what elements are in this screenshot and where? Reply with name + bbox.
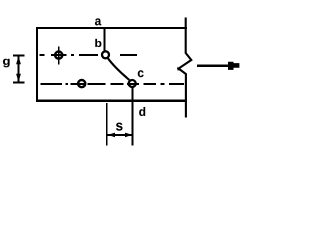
force arrowhead [228, 62, 239, 70]
plate bottom edge [36, 100, 187, 102]
path line b-c (diagonal) [107, 58, 129, 80]
dimension g vertical line [18, 56, 20, 83]
dimension line s [108, 134, 133, 136]
centerline row 2 (dash-dot through mid hole and c) [41, 83, 185, 85]
dimension g bottom bar [13, 82, 25, 84]
plate top edge [36, 27, 187, 29]
arrowhead s left [108, 133, 115, 138]
label g [3, 59, 10, 68]
dimension g top bar [13, 55, 25, 57]
label a [95, 18, 101, 25]
path line a (top edge down to hole b) [104, 28, 106, 51]
label c [138, 70, 144, 77]
break line (right edge zigzag) [179, 18, 192, 118]
force arrow shaft [197, 64, 230, 66]
arrowhead g up [16, 56, 21, 64]
plate left edge [36, 27, 38, 102]
arrowhead s right [125, 133, 132, 138]
centerline row 1 (dash-dot through holes 1 and b) [40, 54, 138, 56]
hole 1 crosshair horizontal [51, 54, 67, 56]
hole 1 crosshair vertical [58, 47, 60, 65]
extension line below b for s [106, 103, 108, 146]
break line vertex thickening [177, 67, 181, 71]
mid hole [78, 80, 85, 87]
hole 1 (circle with center mark) [55, 52, 62, 59]
label s [116, 123, 122, 131]
path line c-d / extension for s (hole c down through bottom edge) [131, 88, 133, 146]
label b [95, 39, 101, 47]
hole b [102, 51, 109, 58]
arrowhead g down [16, 74, 21, 82]
hole c [129, 80, 136, 87]
label d [139, 107, 145, 116]
